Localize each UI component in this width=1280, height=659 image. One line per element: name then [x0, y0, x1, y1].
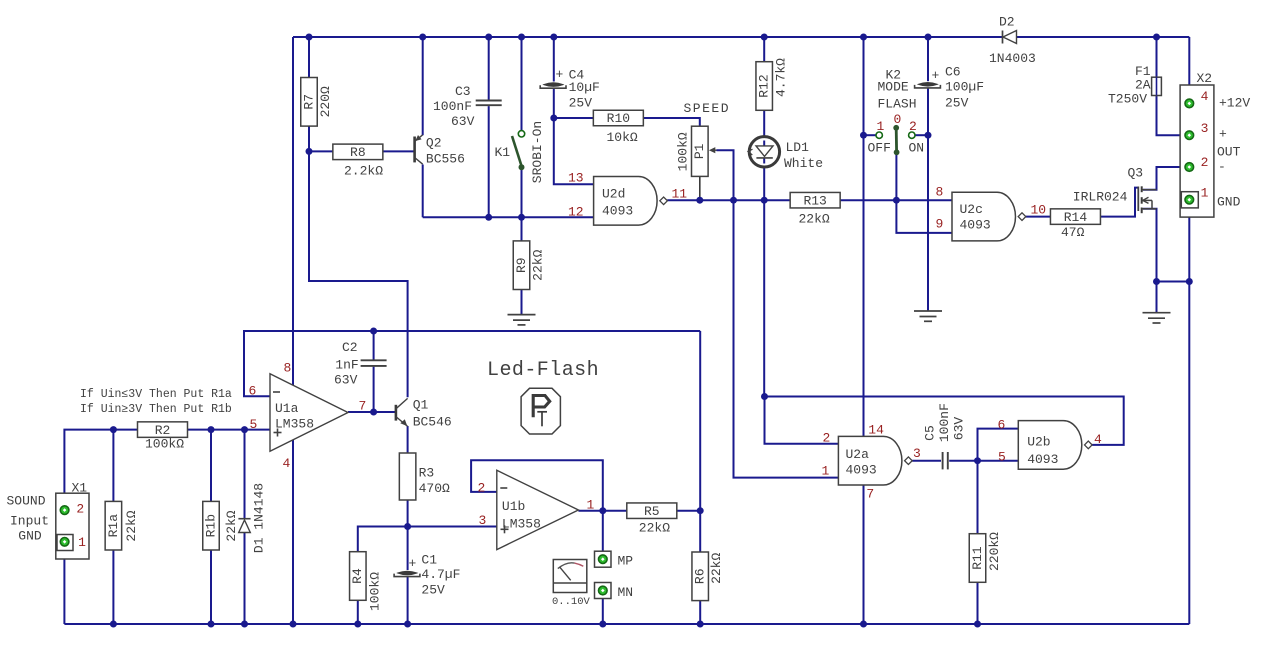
transistor Q2 BC556 [415, 135, 465, 167]
pin label 2 (U2a) [823, 431, 831, 446]
wire R14 to Q3 gate [1101, 188, 1139, 217]
node top bus junctions [306, 34, 932, 41]
svg-text:Q2: Q2 [426, 136, 442, 151]
wire pin12 net Q2-collector to U2d pin 12 [423, 216, 594, 218]
svg-text:10kΩ: 10kΩ [607, 130, 638, 145]
wire R7 bottom to R8 node [308, 126, 310, 151]
label Led-Flash [487, 359, 599, 382]
svg-text:+12V: +12V [1219, 96, 1250, 111]
svg-text:1: 1 [877, 119, 885, 134]
svg-text:22kΩ: 22kΩ [224, 510, 239, 541]
note If Uin<=3V [80, 388, 232, 401]
svg-text:7: 7 [866, 486, 874, 501]
svg-text:C1: C1 [421, 553, 437, 568]
resistor R8 [333, 144, 383, 178]
pin label 6 (U2b) [998, 417, 1006, 432]
svg-text:1: 1 [587, 498, 595, 513]
svg-text:22kΩ: 22kΩ [639, 521, 670, 536]
svg-text:3: 3 [913, 446, 921, 461]
svg-text:47Ω: 47Ω [1061, 225, 1085, 240]
node R3/R4/C1/pin3 junction [404, 523, 411, 530]
wire feedback bus down to R5/R6 node [699, 331, 701, 511]
wire U2c output to R14 [1026, 216, 1050, 218]
wire U2a pin 2 [765, 397, 839, 444]
wire C6 bottom to ground [927, 88, 929, 311]
svg-text:100kΩ: 100kΩ [367, 572, 382, 611]
op-amp U1a LM358 [270, 374, 348, 452]
svg-text:100nF: 100nF [433, 99, 472, 114]
wire U1a output to Q1 base [348, 411, 395, 413]
resistor R7 [301, 78, 333, 127]
transistor Q3 IRLR024 (MOSFET) [1073, 166, 1157, 214]
wire X2 pin1 to bottom bus [1188, 204, 1190, 624]
wire F1 top [1156, 37, 1158, 77]
wire C4 bottom to R10 node [553, 88, 555, 118]
svg-text:4.7µF: 4.7µF [421, 567, 460, 582]
svg-text:2: 2 [76, 502, 84, 517]
node U1a output junction [370, 409, 377, 416]
diode D1 1N4148 [238, 483, 266, 553]
svg-text:2: 2 [823, 431, 831, 446]
svg-text:10µF: 10µF [569, 80, 600, 95]
svg-text:U1b: U1b [502, 499, 525, 514]
wire U1b output to R5 [578, 510, 627, 512]
svg-text:100kΩ: 100kΩ [675, 132, 690, 171]
note If Uin>=3V [80, 403, 232, 416]
svg-text:R12: R12 [757, 74, 772, 97]
svg-text:BC556: BC556 [426, 151, 465, 166]
svg-text:+: + [1219, 126, 1227, 141]
svg-text:1: 1 [78, 535, 86, 550]
svg-text:25V: 25V [569, 96, 593, 111]
pin label 1 (X1) [78, 535, 86, 550]
wire C6 top [927, 37, 929, 81]
svg-text:3: 3 [479, 513, 487, 528]
svg-text:63V: 63V [334, 373, 358, 388]
wire C3 bottom [488, 106, 490, 217]
wire R3 to pin3 node [407, 500, 409, 527]
resistor R13 [790, 192, 840, 226]
pin label 1 (X2) [1201, 186, 1209, 201]
svg-text:C6: C6 [945, 65, 961, 80]
pin label 3 (U2a) [913, 446, 921, 461]
node X2 pin1 ground junction [1186, 278, 1193, 285]
svg-text:10: 10 [1031, 202, 1047, 217]
node Q3 source ground junction [1153, 278, 1160, 285]
svg-text:R8: R8 [350, 145, 366, 160]
wire R10 to P1 top [644, 118, 700, 126]
node R5/R6 junction [697, 507, 704, 514]
wire R7 top [308, 37, 310, 78]
resistor R10 [593, 110, 643, 145]
nand gate U2a 4093 [838, 436, 912, 485]
pin label 2 (U1b) [478, 481, 486, 496]
nand gate U2d 4093 [594, 177, 668, 226]
pin label 2 (X2) [1201, 155, 1209, 170]
svg-text:R9: R9 [514, 257, 529, 273]
wire R6 bottom [699, 601, 701, 624]
node R7/R8/Q1-collector junction [306, 148, 313, 155]
svg-text:D2: D2 [999, 15, 1015, 30]
svg-text:4.7kΩ: 4.7kΩ [774, 58, 789, 97]
wire R6 top [699, 511, 701, 552]
wire R8 left stub [309, 150, 333, 152]
svg-text:R4: R4 [350, 568, 365, 584]
svg-text:Q1: Q1 [413, 397, 429, 412]
connector X1 [56, 481, 89, 560]
wire U2b pin 5 [978, 460, 1019, 462]
svg-text:R1a: R1a [106, 514, 121, 538]
wire R9 to ground [521, 289, 523, 314]
wire Q1 emitter to R3 [407, 426, 409, 453]
wire K2 contact2 stub [915, 134, 928, 136]
wire R4 branch [358, 527, 408, 552]
svg-text:X2: X2 [1197, 71, 1213, 86]
svg-text:SPEED: SPEED [684, 101, 731, 116]
pin label 4 (X2) [1201, 89, 1209, 104]
resistor R1b [203, 501, 239, 550]
svg-text:25V: 25V [945, 95, 969, 110]
wire R1a legs [112, 430, 114, 624]
svg-text:OUT: OUT [1217, 145, 1241, 160]
wire U1b pin 3 [408, 526, 497, 528]
svg-text:2: 2 [909, 119, 917, 134]
label OFF [868, 141, 891, 156]
svg-text:ON: ON [909, 141, 925, 156]
svg-text:LM358: LM358 [275, 416, 314, 431]
pin label 5 (U2b) [998, 449, 1006, 464]
node feedback/U2a-2 junction [761, 393, 768, 400]
svg-text:SOUND: SOUND [7, 494, 46, 509]
svg-text:0: 0 [894, 112, 902, 127]
wire X1 pin1 to bottom bus [63, 546, 65, 624]
wire U2b pin4 feedback net [765, 397, 1124, 445]
switch K2 MODE FLASH [876, 68, 917, 156]
pin label 2 (X1) [76, 502, 84, 517]
svg-text:11: 11 [672, 187, 688, 202]
svg-text:P1: P1 [692, 143, 707, 159]
wire C4 top [553, 37, 555, 82]
svg-text:If Uin≥3V Then Put R1b: If Uin≥3V Then Put R1b [80, 403, 232, 416]
ground below Q3 [1143, 313, 1171, 323]
svg-text:13: 13 [568, 171, 584, 186]
label K2 position 0 [894, 112, 902, 127]
pin label 14 (U2a) [868, 422, 884, 437]
wire K1 bottom to R9 [521, 168, 523, 241]
wire U2a output to C5 [912, 460, 941, 462]
node C2 top junction [370, 328, 377, 335]
wire left rail to U1a pin 8 [292, 37, 294, 385]
svg-text:6: 6 [998, 417, 1006, 432]
svg-text:R3: R3 [419, 466, 435, 481]
resistor R6 [692, 552, 724, 601]
wire U1b pin2 feedback loop [471, 460, 603, 510]
svg-text:1N4003: 1N4003 [989, 51, 1036, 66]
wire R12 top [763, 37, 765, 61]
resistor R12 [756, 58, 789, 110]
svg-text:63V: 63V [451, 114, 475, 129]
wire X1 pin2 to R2 [64, 430, 137, 506]
svg-text:1nF: 1nF [335, 358, 358, 373]
wire D1 legs [244, 430, 246, 624]
node C4/R10/U2d-13 junction [550, 115, 557, 122]
svg-text:0..10V: 0..10V [552, 596, 591, 608]
svg-text:MP: MP [618, 554, 634, 569]
wire U1a pin 4 to bottom bus [292, 440, 294, 624]
node C5/R11/pin5 junction [974, 457, 981, 464]
svg-text:4: 4 [1094, 432, 1102, 447]
node D2/F1 junction [1153, 34, 1160, 41]
svg-text:+: + [556, 67, 564, 82]
wire P1 bottom (symbol lead) [699, 177, 701, 199]
pin label 4 (U2b) [1094, 432, 1102, 447]
svg-text:1: 1 [1201, 186, 1209, 201]
wire ground row under Q3 [1157, 282, 1190, 313]
svg-text:6: 6 [249, 383, 257, 398]
capacitor C2 [334, 340, 387, 388]
resistor R14 [1050, 209, 1100, 240]
label GND (X2) [1217, 195, 1241, 210]
label K2 position 2 [909, 119, 917, 134]
svg-text:4: 4 [283, 456, 291, 471]
label Input [10, 514, 49, 529]
svg-text:Q3: Q3 [1128, 166, 1144, 181]
node R1b top junction [208, 426, 215, 433]
wire R7 branch down to Q1 collector [309, 151, 408, 397]
svg-text:+: + [932, 68, 940, 83]
label + OUT - [1217, 126, 1241, 174]
wire R13 to U2c pin 8 [840, 199, 952, 201]
resistor R11 [969, 532, 1002, 582]
wire C2 top leg [373, 331, 375, 360]
wire U2d pin 13 [554, 118, 593, 184]
pin label 13 (U2d) [568, 171, 584, 186]
svg-text:3: 3 [1201, 121, 1209, 136]
svg-text:14: 14 [868, 422, 884, 437]
potentiometer P1 [675, 101, 730, 176]
wire Q2 emitter to bus [422, 37, 424, 135]
wire R10 left stub [554, 117, 593, 119]
svg-text:X1: X1 [72, 481, 88, 496]
led LD1 White [748, 137, 823, 171]
node wiper/U2a-1 junction [730, 197, 737, 204]
svg-text:+: + [409, 556, 417, 571]
svg-text:MN: MN [618, 585, 634, 600]
svg-text:100nF: 100nF [937, 403, 952, 442]
wire K2 pole down to U2c pin 9 [896, 153, 952, 233]
svg-text:63V: 63V [951, 417, 966, 441]
capacitor C4 (electrolytic) [540, 67, 600, 111]
svg-text:SROBI-On: SROBI-On [530, 121, 545, 183]
svg-text:MODE: MODE [878, 79, 909, 94]
svg-text:2.2kΩ: 2.2kΩ [344, 164, 383, 179]
wire X2 pin2 to Q3 drain [1143, 167, 1189, 190]
svg-text:BC546: BC546 [413, 415, 452, 430]
pin label 10 (U2c) [1031, 202, 1047, 217]
wire feedback bus U1a pin6 [244, 331, 700, 396]
svg-text:R5: R5 [644, 504, 660, 519]
svg-text:R13: R13 [803, 193, 826, 208]
wire LD1 node down to feedback junction [763, 200, 765, 396]
wire K1 top [521, 37, 523, 131]
svg-text:If Uin≤3V Then Put R1a: If Uin≤3V Then Put R1a [80, 388, 232, 401]
node LD1 cathode junction [761, 197, 768, 204]
svg-text:4093: 4093 [602, 204, 633, 219]
terminal MN [595, 583, 634, 601]
connector X2 [1180, 71, 1214, 217]
pin label 1 (U1b) [587, 498, 595, 513]
svg-text:2: 2 [478, 481, 486, 496]
svg-text:9: 9 [936, 216, 944, 231]
svg-text:GND: GND [1217, 195, 1241, 210]
ground below C6/K2 line [914, 311, 942, 321]
transistor Q1 BC546 [396, 397, 452, 429]
resistor R1a [105, 501, 139, 550]
wire R4 bottom [357, 600, 359, 624]
svg-text:LD1: LD1 [786, 140, 810, 155]
svg-text:2: 2 [1201, 155, 1209, 170]
wire P1 wiper to pin11 net [717, 150, 734, 200]
svg-text:4093: 4093 [1027, 452, 1058, 467]
svg-text:22kΩ: 22kΩ [709, 553, 724, 584]
svg-text:12: 12 [568, 204, 584, 219]
svg-text:22kΩ: 22kΩ [799, 212, 830, 227]
wire R2 to U1a pin 5 [188, 429, 271, 431]
svg-text:5: 5 [998, 449, 1006, 464]
node C3 junction on pin12 net [485, 214, 492, 221]
op-amp U1b LM358 [497, 470, 579, 549]
pin label 7 (U2a) [866, 486, 874, 501]
svg-text:4: 4 [1201, 89, 1209, 104]
svg-text:C3: C3 [455, 84, 471, 99]
svg-text:1: 1 [822, 464, 830, 479]
node K2 pole junction on pin8 net [893, 197, 900, 204]
svg-text:25V: 25V [421, 583, 445, 598]
resistor R4 [350, 552, 383, 611]
pin label 1 (U2a) [822, 464, 830, 479]
svg-text:U2d: U2d [602, 187, 625, 202]
svg-text:LM358: LM358 [502, 516, 541, 531]
wire U2a pin 7 to bottom bus [863, 485, 865, 624]
wire R12 to LD1 [763, 110, 765, 136]
svg-text:470Ω: 470Ω [419, 481, 450, 496]
wire R5 to R6 node [676, 510, 700, 512]
svg-text:White: White [784, 156, 823, 171]
wire U2a pin 1 [734, 200, 839, 477]
wire C1 top leg [407, 527, 409, 571]
wire R1b legs [210, 430, 212, 624]
svg-text:Led-Flash: Led-Flash [487, 359, 599, 382]
svg-text:C5: C5 [922, 425, 937, 441]
capacitor C1 (electrolytic) [394, 553, 460, 598]
wire GND bottom bus [64, 623, 1189, 625]
pin label 4 (U1a) [283, 456, 291, 471]
svg-text:R11: R11 [970, 546, 985, 570]
capacitor C3 [433, 84, 502, 129]
label +12V [1219, 96, 1250, 111]
node K1/R9 junction on pin12 net [518, 214, 525, 221]
wire U2d output pin 11 net [667, 199, 790, 201]
pin label 5 (U1a) [250, 417, 258, 432]
pin label 11 (U2d) [672, 187, 688, 202]
label SOUND [7, 494, 46, 509]
svg-text:Input: Input [10, 514, 49, 529]
node D1 top junction [241, 426, 248, 433]
terminal MP [595, 551, 634, 568]
svg-text:22kΩ: 22kΩ [124, 510, 139, 541]
svg-text:C2: C2 [342, 340, 358, 355]
svg-text:R10: R10 [607, 111, 630, 126]
wire +12V top bus [293, 37, 1189, 100]
wire MP terminal leg [602, 511, 604, 552]
svg-text:220Ω: 220Ω [318, 86, 333, 117]
svg-text:U1a: U1a [275, 401, 299, 416]
pin label 3 (U1b) [479, 513, 487, 528]
ground below R9 [508, 315, 536, 325]
svg-text:T250V: T250V [1108, 92, 1147, 107]
pin label 8 (U2c) [936, 185, 944, 200]
wire U2b pin 6 [978, 429, 1019, 461]
wire R11 bottom [977, 583, 979, 625]
fuse F1 2A [1108, 64, 1161, 107]
svg-text:R6: R6 [693, 568, 708, 584]
wire R11 top [977, 461, 979, 534]
label K2 position 1 [877, 119, 885, 134]
svg-text:R1b: R1b [203, 514, 218, 537]
svg-text:K1: K1 [495, 145, 511, 160]
wire C3 top [488, 37, 490, 100]
resistor R2 [138, 422, 188, 452]
svg-text:R14: R14 [1064, 210, 1088, 225]
node bottom bus junctions [110, 621, 981, 628]
pin label 6 (U1a) [249, 383, 257, 398]
svg-text:100kΩ: 100kΩ [145, 437, 184, 452]
svg-text:R7: R7 [301, 94, 316, 110]
svg-text:-: - [1218, 159, 1226, 174]
wire C1 bottom leg [407, 577, 409, 624]
svg-text:100µF: 100µF [945, 80, 984, 95]
capacitor C6 (electrolytic) [915, 65, 984, 111]
svg-text:U2a: U2a [846, 447, 870, 462]
svg-text:22kΩ: 22kΩ [531, 249, 546, 280]
diode D2 1N4003 [989, 15, 1036, 67]
node K2 contact1 junction [860, 132, 867, 139]
svg-text:FLASH: FLASH [878, 96, 917, 111]
nand gate U2c 4093 [952, 192, 1026, 241]
node U1b output junction [599, 507, 606, 514]
svg-text:U2b: U2b [1027, 435, 1050, 450]
wire F1 to X2 pin3 [1157, 96, 1190, 136]
svg-text:220kΩ: 220kΩ [987, 532, 1002, 571]
resistor R9 [513, 241, 545, 290]
wire R8 right to Q2 base [383, 150, 414, 152]
pin label 7 (U1a) [359, 398, 367, 413]
pin label 12 (U2d) [568, 204, 584, 219]
svg-text:4093: 4093 [960, 218, 991, 233]
svg-text:5: 5 [250, 417, 258, 432]
wire K2 contact1 rail [864, 37, 877, 436]
svg-text:8: 8 [936, 185, 944, 200]
resistor R5 [627, 503, 677, 536]
svg-text:U2c: U2c [960, 202, 983, 217]
wire Q2 collector down [422, 165, 424, 218]
svg-text:7: 7 [359, 398, 367, 413]
svg-text:D1 1N4148: D1 1N4148 [251, 483, 266, 553]
node K2 contact2 junction [925, 132, 932, 139]
svg-text:4093: 4093 [846, 463, 877, 478]
resistor R3 [399, 453, 450, 500]
wire C5 to pins 5/6 node [949, 460, 977, 462]
